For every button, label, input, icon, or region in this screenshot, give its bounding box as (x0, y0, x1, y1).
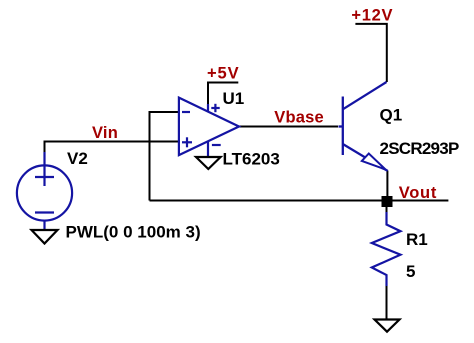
svg-text:+12V: +12V (351, 6, 393, 24)
wire +5V supply to op-amp V+ (208, 83, 238, 107)
ground under R1 (375, 320, 400, 332)
svg-text:5: 5 (406, 262, 415, 281)
wire R1 bottom to ground (386, 285, 388, 319)
wire feedback vertical and top into op-amp - input (150, 112, 180, 201)
transistor Q1 (339, 82, 388, 171)
op-amp U1 (179, 98, 239, 157)
resistor R1 (372, 212, 401, 286)
ground under op-amp U1 (196, 157, 221, 169)
wire op-amp output to Q1 base (239, 126, 339, 128)
svg-text:Q1: Q1 (380, 105, 403, 124)
wire +12V supply to Q1 collector (355, 24, 386, 82)
svg-text:V2: V2 (67, 149, 88, 168)
svg-text:PWL(0 0 100m 3): PWL(0 0 100m 3) (66, 222, 201, 241)
svg-text:+5V: +5V (207, 64, 240, 82)
svg-text:Vin: Vin (92, 124, 118, 142)
wire Vout node to the right (387, 200, 448, 202)
voltage source V2 (17, 152, 72, 230)
wire Vout node down to R1 (386, 201, 388, 216)
svg-text:LT6203: LT6203 (223, 150, 280, 169)
ground under V2 (32, 230, 58, 244)
svg-text:Vout: Vout (399, 184, 437, 202)
wire feedback bottom horizontal to Vout node (150, 200, 388, 202)
svg-text:R1: R1 (406, 230, 428, 249)
wire Q1 emitter down to Vout node (386, 171, 388, 202)
svg-text:2SCR293P: 2SCR293P (380, 139, 459, 158)
node Vout junction square (382, 196, 393, 207)
svg-text:Vbase: Vbase (274, 109, 324, 127)
svg-text:U1: U1 (223, 89, 245, 108)
wire Vin horizontal from V2 to op-amp + input (45, 142, 180, 166)
